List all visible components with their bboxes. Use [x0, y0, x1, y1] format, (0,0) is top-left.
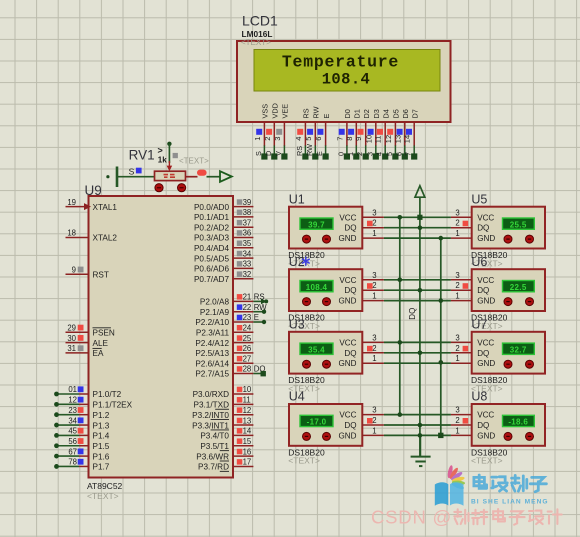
svg-text:P1.7: P1.7 [93, 463, 110, 472]
output terminal arrow [220, 171, 232, 182]
LCD1 screen [254, 50, 440, 92]
svg-text:P0.6/AD6: P0.6/AD6 [194, 265, 229, 274]
svg-text:RW: RW [312, 106, 321, 118]
svg-text:DQ: DQ [477, 286, 489, 295]
svg-text:P0.0/AD0: P0.0/AD0 [194, 203, 229, 212]
U9 pin 10 P3.0 [193, 385, 254, 399]
wire DQ bus vertical [419, 197, 421, 456]
U9 pin 14 P3.4 [200, 427, 253, 441]
junction DQ/ground [418, 433, 423, 438]
svg-text:3: 3 [372, 406, 376, 415]
svg-text:29: 29 [67, 324, 76, 333]
junction GND bus [439, 360, 444, 365]
LCD1 pin 9 (D2) [354, 109, 371, 159]
wire RV1 right (pin stub) [186, 176, 198, 178]
svg-text:3: 3 [455, 406, 459, 415]
svg-text:10: 10 [243, 385, 252, 394]
svg-text:8: 8 [345, 137, 354, 141]
svg-text:DQ: DQ [477, 224, 489, 233]
svg-text:10: 10 [364, 135, 373, 143]
U9 pin 28 P2.7/A15 [195, 365, 265, 379]
svg-text:GND: GND [339, 359, 357, 368]
LCD1 pin 2 (VDD) [263, 103, 280, 160]
LCD1 pin 10 (D3) [364, 109, 381, 159]
LCD1 body [237, 41, 451, 122]
svg-text:11: 11 [374, 135, 383, 143]
temperature sensor U6 (DS18B20) [451, 255, 545, 311]
svg-text:P3.0/RXD: P3.0/RXD [193, 390, 229, 399]
svg-text:U3: U3 [289, 318, 305, 332]
svg-text:P1.3: P1.3 [93, 421, 110, 430]
junction DQ bus [418, 351, 423, 356]
svg-text:-17.0: -17.0 [307, 418, 327, 427]
svg-text:P3.6/WR: P3.6/WR [196, 452, 229, 461]
U9 pin 24 P2.3/A11 [196, 324, 253, 338]
annotation marker (blue asterisk near U2) [302, 257, 310, 266]
temperature sensor U5 (DS18B20) [451, 192, 545, 248]
U9 pin 4 P1.3 with net 3 [54, 416, 110, 430]
svg-text:RST: RST [93, 270, 109, 279]
svg-text:P0.5/AD5: P0.5/AD5 [194, 254, 229, 263]
svg-text:13: 13 [393, 135, 402, 143]
U9 pin 27 P2.6/A14 [195, 354, 253, 368]
svg-text:LCD1: LCD1 [242, 13, 278, 29]
svg-text:P3.2/INT0: P3.2/INT0 [192, 411, 229, 420]
wire to output terminal [207, 176, 221, 178]
svg-text:P0.4/AD4: P0.4/AD4 [194, 244, 229, 253]
wire GND bus vertical [440, 238, 442, 435]
RV1 state square (blue) [136, 168, 142, 174]
U9 pin 16 P3.6 [196, 447, 253, 461]
svg-text:U5: U5 [471, 192, 487, 206]
svg-text:2: 2 [372, 281, 376, 290]
svg-text:<TEXT>: <TEXT> [288, 456, 320, 466]
svg-text:19: 19 [67, 198, 76, 207]
svg-text:ALE: ALE [93, 339, 109, 348]
wire VCC row for U3/U7 [384, 341, 451, 343]
wire GND row for U1/U5 [384, 237, 451, 239]
U9 pin 39 P0.0/AD0 [194, 198, 253, 212]
U9 pin 7 P1.6 with net 6 [54, 447, 110, 461]
svg-text:32.7: 32.7 [510, 345, 527, 354]
svg-text:P3.5/T1: P3.5/T1 [200, 442, 229, 451]
svg-text:3: 3 [372, 271, 376, 280]
svg-text:7: 7 [335, 137, 344, 141]
svg-text:EA: EA [93, 349, 104, 358]
svg-text:S: S [129, 167, 135, 177]
svg-text:VEE: VEE [281, 104, 290, 119]
U9 pin 36 P0.3/AD3 [194, 229, 253, 243]
svg-text:GND: GND [339, 297, 357, 306]
svg-text:1: 1 [372, 292, 376, 301]
LCD1 pin 11 (D4) [374, 109, 391, 159]
svg-text:U1: U1 [289, 192, 305, 206]
svg-text:>: > [158, 146, 163, 156]
svg-text:1: 1 [455, 292, 459, 301]
U9 pin 6 P1.5 with net 5 [54, 437, 110, 451]
svg-text:9: 9 [72, 265, 76, 274]
svg-text:2: 2 [455, 281, 459, 290]
svg-text:P2.2/A10: P2.2/A10 [195, 318, 229, 327]
LCD1 pin 13 (D6) [393, 109, 410, 159]
LCD1 pin 4 (RS) [294, 108, 311, 159]
svg-text:DQ: DQ [344, 421, 356, 430]
svg-text:<TEXT>: <TEXT> [241, 38, 271, 47]
svg-text:37: 37 [243, 218, 252, 227]
LCD1 pin 1 (VSS) [253, 104, 270, 160]
svg-text:D2: D2 [362, 109, 371, 118]
svg-text:5: 5 [304, 137, 313, 141]
temperature sensor U1 (DS18B20) [289, 192, 384, 248]
svg-text:P0.7/AD7: P0.7/AD7 [194, 275, 229, 284]
RV1 wiper state square (grey) [173, 153, 178, 158]
LCD1 pin 14 (D7) [403, 109, 420, 159]
U9 pin 17 P3.7 [198, 458, 253, 472]
wire DQ row for U2/U6 [384, 289, 451, 291]
svg-text:VCC: VCC [339, 213, 356, 222]
svg-text:VCC: VCC [477, 411, 494, 420]
svg-text:GND: GND [477, 431, 495, 440]
svg-text:25: 25 [243, 334, 252, 343]
svg-text:D7: D7 [410, 109, 419, 118]
U9 pin 34 P0.5/AD5 [194, 249, 253, 263]
LCD1 pin 5 (RW) [304, 106, 321, 159]
U9 body [89, 196, 234, 478]
svg-text:P1.6: P1.6 [93, 452, 110, 461]
temperature sensor U3 (DS18B20) [289, 318, 384, 374]
svg-text:GND: GND [339, 431, 357, 440]
svg-text:GND: GND [477, 234, 495, 243]
svg-text:31: 31 [67, 344, 76, 353]
svg-text:1: 1 [372, 229, 376, 238]
svg-text:1: 1 [372, 354, 376, 363]
svg-text:4: 4 [294, 137, 303, 141]
left terminal bar [116, 167, 119, 188]
svg-text:PSEN: PSEN [93, 329, 115, 338]
LCD1 pin 3 (VEE) [273, 104, 290, 160]
net state pill [197, 170, 207, 176]
svg-text:P3.7/RD: P3.7/RD [198, 463, 229, 472]
svg-text:18: 18 [67, 229, 76, 238]
ground symbol [411, 435, 431, 466]
U9 pin 12 P3.2 [192, 406, 253, 420]
LCD1 pin 7 (D0) [335, 109, 352, 159]
logo: open book icon [435, 482, 464, 506]
svg-text:P1.2: P1.2 [93, 411, 110, 420]
svg-text:DQ: DQ [477, 349, 489, 358]
svg-text:22: 22 [243, 303, 252, 312]
svg-text:P0.2/AD2: P0.2/AD2 [194, 223, 229, 232]
svg-text:108.4: 108.4 [322, 71, 371, 89]
U9 pin 37 P0.2/AD2 [194, 218, 253, 232]
wire GND row for U4/U8 [384, 434, 451, 436]
svg-text:D4: D4 [381, 109, 390, 118]
U9 pin 2 P1.1/T2EX with net 1 [54, 396, 133, 410]
U9 pin 31 EA [66, 344, 104, 358]
svg-text:P2.6/A14: P2.6/A14 [195, 359, 229, 368]
svg-text:2: 2 [372, 219, 376, 228]
svg-text:P3.3/INT1: P3.3/INT1 [192, 421, 229, 430]
svg-text:<TEXT>: <TEXT> [87, 491, 119, 501]
svg-text:1: 1 [455, 426, 459, 435]
svg-text:25.5: 25.5 [510, 220, 527, 229]
svg-text:GND: GND [339, 234, 357, 243]
svg-text:-18.6: -18.6 [508, 418, 528, 427]
svg-text:BI SHE LIAN MENG: BI SHE LIAN MENG [471, 499, 549, 506]
svg-text:RS: RS [302, 108, 311, 118]
svg-text:22.5: 22.5 [510, 283, 527, 292]
junction DQ bus [418, 288, 423, 293]
svg-text:VCC: VCC [477, 276, 494, 285]
svg-text:D0: D0 [343, 109, 352, 118]
svg-text:P1.0/T2: P1.0/T2 [93, 390, 122, 399]
svg-text:38: 38 [243, 208, 252, 217]
junction GND bus [439, 236, 444, 241]
RV1 body inner marking [164, 175, 176, 178]
svg-text:21: 21 [243, 293, 252, 302]
svg-text:2: 2 [372, 416, 376, 425]
wire net E stub [253, 321, 263, 323]
U9 pin 9 RST [66, 265, 109, 279]
svg-text:VCC: VCC [339, 276, 356, 285]
wire net RS stub [253, 300, 262, 302]
wire GND row for U3/U7 [384, 362, 451, 364]
wire to RV1 left [117, 176, 155, 178]
svg-text:34: 34 [243, 249, 252, 258]
svg-text:P2.4/A12: P2.4/A12 [195, 339, 229, 348]
watermark 创新电子设计 (stroke mimic) [454, 509, 561, 525]
svg-text:2: 2 [455, 344, 459, 353]
svg-text:DQ: DQ [344, 224, 356, 233]
logo: text 毕设联盟 (stroke mimic) [474, 475, 546, 492]
svg-text:12: 12 [243, 406, 252, 415]
U9 pin 33 P0.6/AD6 [194, 260, 253, 274]
U9 pin 1 P1.0/T2 with net 0 [54, 385, 122, 399]
temperature sensor U2 (DS18B20) [289, 255, 384, 311]
svg-text:27: 27 [243, 354, 252, 363]
svg-text:DQ: DQ [477, 421, 489, 430]
svg-text:<TEXT>: <TEXT> [471, 456, 503, 466]
svg-text:CSDN @: CSDN @ [371, 507, 452, 528]
svg-text:3: 3 [372, 333, 376, 342]
U9 pin 13 P3.3 [192, 416, 253, 430]
wire RV1 wiper vertical [168, 144, 170, 163]
svg-text:GND: GND [477, 297, 495, 306]
svg-text:D3: D3 [372, 109, 381, 118]
node at RV1 wiper top [167, 142, 171, 146]
svg-text:P2.0/A8: P2.0/A8 [200, 298, 230, 307]
svg-text:39: 39 [243, 198, 252, 207]
RV1 wiper arrow [168, 161, 170, 166]
svg-text:56: 56 [68, 437, 77, 446]
svg-text:VCC: VCC [477, 213, 494, 222]
svg-text:P2.1/A9: P2.1/A9 [200, 308, 230, 317]
svg-text:11: 11 [243, 396, 251, 405]
U9 pin 35 P0.4/AD4 [194, 239, 253, 253]
U9 pin 5 P1.4 with net 4 [54, 427, 110, 441]
U9 pin 38 P0.1/AD1 [194, 208, 253, 222]
junction VCC bus [398, 340, 403, 345]
left terminal dot [106, 175, 109, 178]
svg-text:14: 14 [243, 427, 252, 436]
U9 pin 19 XTAL1 [66, 198, 118, 212]
U9 pin 26 P2.5/A13 [195, 344, 253, 358]
svg-text:1k: 1k [158, 156, 167, 165]
svg-text:RV1: RV1 [129, 148, 155, 163]
svg-text:39.7: 39.7 [308, 220, 325, 229]
svg-text:24: 24 [243, 324, 252, 333]
svg-text:AT89C52: AT89C52 [87, 481, 123, 491]
svg-text:1: 1 [455, 354, 459, 363]
temperature sensor U8 (DS18B20) [451, 390, 545, 446]
svg-text:30: 30 [67, 334, 76, 343]
U9 pin 29 PSEN [66, 324, 115, 338]
svg-text:35.4: 35.4 [308, 345, 325, 354]
svg-text:108.4: 108.4 [306, 283, 328, 292]
junction DQ bus [418, 225, 423, 230]
svg-text:P2.7/A15: P2.7/A15 [195, 370, 229, 379]
U9 pin 18 XTAL2 [66, 229, 118, 243]
svg-text:36: 36 [243, 229, 252, 238]
svg-text:1: 1 [372, 426, 376, 435]
svg-text:U2: U2 [289, 255, 305, 269]
svg-text:VCC: VCC [339, 411, 356, 420]
svg-text:15: 15 [243, 437, 252, 446]
junction GND bus bottom [438, 433, 443, 438]
svg-text:D6: D6 [401, 109, 410, 118]
RV1 adjust knob right [178, 184, 186, 192]
logo: colorful feathers [447, 465, 465, 491]
RV1 adjust knob left [155, 184, 163, 192]
svg-text:2: 2 [455, 219, 459, 228]
svg-text:U4: U4 [289, 390, 305, 404]
svg-text:2: 2 [263, 137, 272, 141]
svg-text:U7: U7 [471, 318, 487, 332]
wire GND row for U2/U6 [384, 300, 451, 302]
svg-text:DQ: DQ [408, 308, 417, 320]
svg-text:12: 12 [68, 396, 77, 405]
svg-text:1: 1 [455, 229, 459, 238]
U9 pin 3 P1.2 with net 2 [54, 406, 110, 420]
svg-text:01: 01 [68, 385, 77, 394]
RV1 body [155, 171, 186, 180]
svg-text:32: 32 [243, 270, 252, 279]
U9 pin 32 P0.7/AD7 [194, 270, 253, 284]
svg-text:17: 17 [243, 458, 252, 467]
svg-text:VDD: VDD [271, 103, 280, 118]
U9 pin 23 P2.2/A10 [195, 313, 259, 327]
U9 pin 30 ALE [66, 334, 109, 348]
junction DQ bus [418, 423, 423, 428]
temperature sensor U4 (DS18B20) [289, 390, 384, 446]
svg-text:P2.3/A11: P2.3/A11 [196, 329, 230, 338]
svg-text:3: 3 [455, 271, 459, 280]
U9 pin 8 P1.7 with net 7 [54, 458, 110, 472]
LCD1 pin 6 (E) [314, 114, 331, 160]
svg-text:XTAL1: XTAL1 [93, 203, 118, 212]
svg-text:78: 78 [68, 458, 77, 467]
power terminal (+5V arrow) [415, 186, 425, 197]
junction GND bus [439, 298, 444, 303]
svg-text:P1.4: P1.4 [93, 432, 110, 441]
svg-text:P1.5: P1.5 [93, 442, 110, 451]
svg-text:3: 3 [372, 208, 376, 217]
svg-text:VSS: VSS [261, 104, 270, 119]
svg-text:P2.5/A13: P2.5/A13 [195, 349, 229, 358]
svg-text:16: 16 [243, 447, 252, 456]
svg-text:34: 34 [68, 416, 77, 425]
junction VCC bus [398, 215, 403, 220]
svg-text:D1: D1 [353, 109, 362, 118]
wire VCC row for U2/U6 [384, 279, 451, 281]
svg-text:Temperature: Temperature [282, 53, 399, 72]
svg-text:XTAL2: XTAL2 [93, 234, 118, 243]
svg-text:23: 23 [68, 406, 77, 415]
U9 pin 21 P2.0/A8 [200, 293, 265, 307]
svg-text:28: 28 [243, 365, 252, 374]
U9 pin 22 P2.1/A9 [200, 303, 267, 317]
U9 pin 11 P3.1 [194, 396, 254, 410]
svg-text:45: 45 [68, 427, 77, 436]
svg-text:<TEXT>: <TEXT> [179, 157, 209, 166]
svg-text:33: 33 [243, 260, 252, 269]
svg-text:67: 67 [68, 447, 77, 456]
svg-text:U6: U6 [471, 255, 487, 269]
LCD1 pin 8 (D1) [345, 109, 362, 159]
XTAL1 clock input mark [84, 203, 91, 210]
U9 pin 15 P3.5 [200, 437, 253, 451]
wire DQ row for U3/U7 [384, 352, 451, 354]
svg-text:DQ: DQ [344, 286, 356, 295]
temperature sensor U7 (DS18B20) [451, 318, 545, 374]
U9 pin 25 P2.4/A12 [195, 334, 253, 348]
wire DQ row for U1/U5 [384, 227, 451, 229]
svg-text:E: E [254, 313, 259, 322]
wire DQ row for U4/U8 [384, 424, 451, 426]
LCD1 pin 12 (D5) [384, 109, 401, 159]
svg-text:D5: D5 [392, 109, 401, 118]
svg-text:13: 13 [243, 416, 252, 425]
svg-text:3: 3 [273, 137, 282, 141]
wire net DQ stub [253, 373, 260, 375]
svg-text:23: 23 [243, 313, 252, 322]
svg-text:26: 26 [243, 344, 252, 353]
svg-text:35: 35 [243, 239, 252, 248]
svg-text:P3.4/T0: P3.4/T0 [200, 432, 229, 441]
svg-text:3: 3 [455, 208, 459, 217]
svg-text:P1.1/T2EX: P1.1/T2EX [93, 401, 133, 410]
junction DQ bus top (power) [417, 215, 422, 220]
svg-text:VCC: VCC [477, 338, 494, 347]
junction VCC bus [398, 412, 403, 417]
svg-text:P3.1/TXD: P3.1/TXD [194, 401, 230, 410]
svg-text:1: 1 [253, 137, 262, 141]
junction VCC bus [398, 278, 403, 283]
wire VCC row for U1/U5 [384, 216, 451, 218]
svg-text:P0.3/AD3: P0.3/AD3 [194, 234, 229, 243]
svg-text:2: 2 [372, 344, 376, 353]
svg-text:GND: GND [477, 359, 495, 368]
svg-text:E: E [322, 114, 331, 119]
wire VCC row for U4/U8 [384, 414, 451, 416]
svg-text:14: 14 [403, 135, 412, 143]
svg-text:6: 6 [314, 137, 323, 141]
svg-text:12: 12 [384, 135, 393, 143]
svg-text:VCC: VCC [339, 338, 356, 347]
svg-text:U8: U8 [471, 390, 487, 404]
svg-text:3: 3 [455, 333, 459, 342]
svg-text:P0.1/AD1: P0.1/AD1 [194, 213, 229, 222]
